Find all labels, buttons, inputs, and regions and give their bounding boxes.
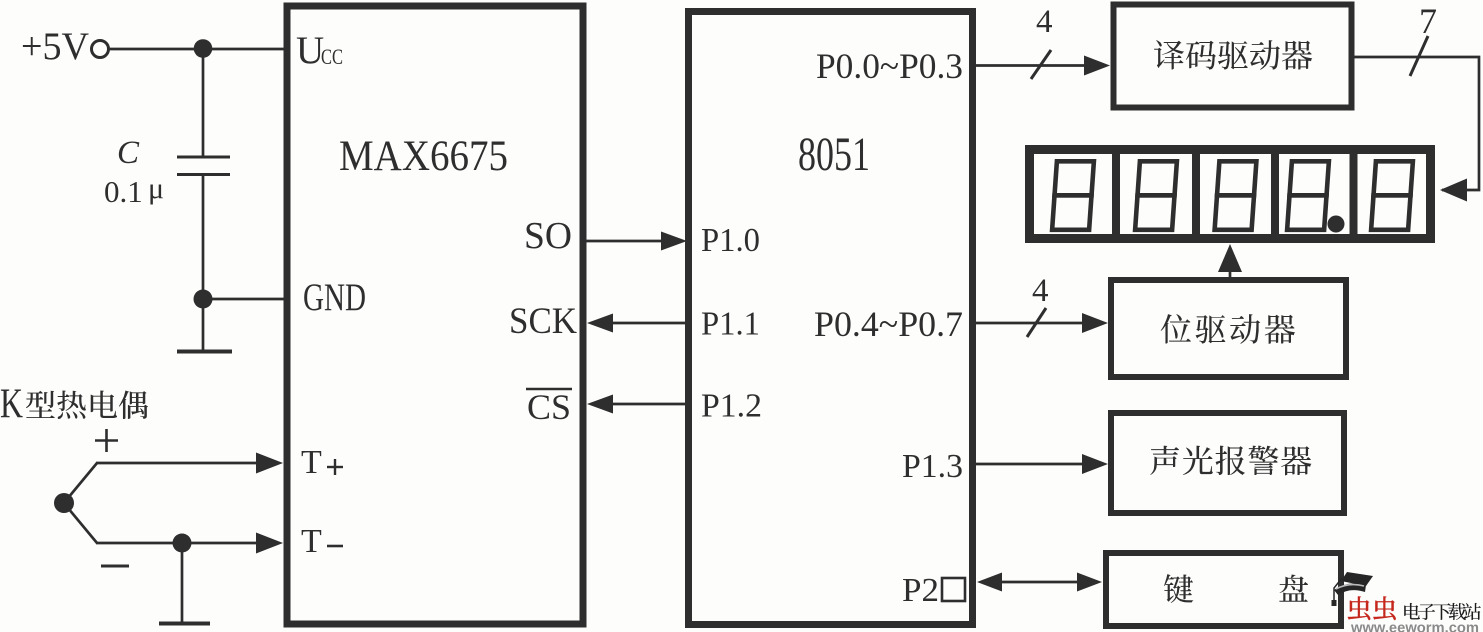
svg-text:7: 7 [1419,1,1437,41]
bus width slash 4 [1031,50,1051,79]
svg-text:4: 4 [1032,273,1049,309]
ground symbol under capacitor [202,299,205,351]
svg-text:T: T [301,444,322,481]
display decimal point [1328,216,1345,233]
wire capacitor to GND node [202,176,205,299]
svg-text:P0.0~P0.3: P0.0~P0.3 [816,46,963,86]
sound-light alarm box [1111,413,1344,513]
junction dot GND node [194,290,213,309]
watermark site name (dian zi xia zai zhan) [1404,603,1481,620]
display digits 8888.8 [1052,161,1094,230]
svg-text:P0.4~P0.7: P0.4~P0.7 [814,304,963,344]
bus P0.4-P0.7 to digit driver [976,322,1082,325]
junction dot on T- wire [173,534,192,553]
decoder driver box [1114,5,1352,108]
digit driver label (wei qu dong qi) [1161,314,1191,343]
svg-text:U: U [296,29,324,72]
capacitor C1 plates [177,156,230,159]
svg-text:P2: P2 [902,572,939,609]
svg-text:CS: CS [527,387,571,427]
watermark chongchong red characters [1348,596,1396,620]
svg-text:SO: SO [524,215,572,257]
wire P1.3 to alarm [976,463,1082,466]
wire thermocouple to T+ [63,463,97,504]
svg-text:P1.2: P1.2 [701,388,762,425]
IC U2 8051 box [689,12,973,625]
bus width slash 7 [1410,36,1428,76]
digit driver box [1111,280,1346,377]
IC U1 MAX6675 box [287,6,583,624]
thermocouple minus sign [101,565,129,568]
wire P1.2 to CS [611,403,688,406]
svg-text:www.eeworm.com: www.eeworm.com [1350,621,1479,632]
wire GND node to MAX6675 GND pin [203,298,284,301]
svg-text:P1.3: P1.3 [902,448,963,485]
svg-text:CC: CC [321,44,343,69]
ground symbol under T- wire [181,543,184,623]
wire SO to P1.0 [586,240,663,243]
svg-text:+5V: +5V [21,25,89,68]
+5V terminal circle [92,41,109,58]
watermark cap tassel [1334,578,1342,600]
svg-text:T: T [301,523,322,560]
svg-text:0.1: 0.1 [104,174,143,209]
svg-text:GND: GND [303,276,366,319]
svg-text:P1.0: P1.0 [701,222,760,259]
svg-text:8051: 8051 [798,128,870,181]
svg-text:K: K [0,382,23,428]
junction dot on +5V rail [194,39,213,58]
display digit cell dividers [1112,154,1120,235]
bus P0.0-P0.3 to decoder driver [976,64,1084,67]
svg-text:MAX6675: MAX6675 [339,133,508,180]
arrow digit driver to display [1229,266,1232,277]
svg-text:C: C [117,135,140,171]
svg-text:4: 4 [1036,4,1053,40]
svg-text:SCK: SCK [509,301,577,342]
thermocouple plus sign [95,439,118,442]
watermark graduation cap [1341,572,1373,586]
wire decoder driver to display [1354,57,1479,190]
svg-text:P1.1: P1.1 [701,306,760,343]
wire +5V to Ucc [109,48,285,51]
keyboard box [1106,553,1341,626]
alarm label (sheng guang bao jing qi) [1150,446,1179,475]
7-segment display frame [1030,150,1431,239]
wire thermocouple to T- [63,502,97,543]
thermocouple junction dot [54,493,74,513]
wire junction down to capacitor [202,49,205,156]
bus width slash 4 (digit driver) [1027,308,1046,337]
keyboard label (jian pan) [1164,574,1193,603]
wire P1.1 to SCK [611,322,688,325]
decoder driver label (yi ma qu dong qi) [1154,40,1184,69]
svg-text:μ: μ [148,172,164,205]
bidirectional bus P2 to keyboard [999,581,1080,584]
